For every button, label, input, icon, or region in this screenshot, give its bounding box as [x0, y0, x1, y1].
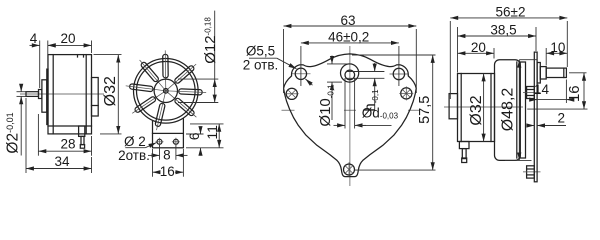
dim 6: [186, 133, 204, 135]
dim O10 (vertical, left of boss): [327, 63, 351, 65]
output collar: [537, 63, 540, 84]
svg-text:28: 28: [60, 137, 75, 152]
motor body: [48, 55, 92, 134]
mounting base right leg: [182, 119, 184, 133]
shaft tip seam: [563, 68, 565, 77]
svg-text:11: 11: [204, 125, 220, 140]
vent slots (8 stamped slots): [129, 54, 202, 126]
shaft hub: [39, 90, 42, 99]
dim 20: [91, 41, 93, 54]
mounting base plate: [153, 133, 184, 147]
dim 4: [39, 41, 41, 89]
mounting plate: [534, 52, 537, 182]
mounting base left leg: [152, 121, 154, 133]
terminal pin: [462, 149, 466, 159]
dim O32 (inside body): [483, 74, 485, 142]
dim 11: [190, 123, 224, 125]
svg-text:Ø48,2: Ø48,2: [500, 88, 517, 132]
flange horizontal centerline ticks: [282, 109, 295, 111]
terminal pin tip: [462, 158, 467, 163]
front plate: [47, 69, 48, 124]
output bushing: [540, 67, 546, 79]
mounting hole right O5.5: [393, 68, 404, 79]
rear boss seam: [92, 105, 99, 107]
end bell outer circle: [134, 59, 199, 124]
dim 10: [545, 48, 547, 66]
bottom rivet: [344, 164, 355, 175]
svg-text:Ø5,5: Ø5,5: [246, 44, 275, 59]
flange vertical centerline: [349, 46, 351, 186]
svg-text:57,5: 57,5: [417, 96, 433, 124]
body bottom inner line: [48, 125, 92, 127]
flange outline: [284, 54, 417, 177]
body seam right: [490, 74, 492, 142]
motor body: [458, 74, 495, 142]
gearbox face seam: [516, 62, 518, 158]
output shaft: [546, 68, 566, 77]
dim 57,5: [352, 54, 436, 56]
svg-text:46±0,2: 46±0,2: [328, 29, 369, 44]
svg-text:14: 14: [534, 82, 550, 97]
dim 28: [37, 114, 39, 156]
dim O32 body: [94, 54, 122, 56]
dim 16: [152, 149, 154, 177]
rear boss: [92, 78, 99, 117]
dim 46 +-0,2: [300, 46, 302, 86]
dim 38,5: [457, 27, 459, 73]
gearbox cover: [520, 62, 525, 158]
svg-text:38,5: 38,5: [490, 23, 516, 38]
central boss O10: [341, 64, 359, 82]
slot axis centerlines: [126, 86, 166, 91]
dim O2 shaft: [17, 91, 27, 93]
svg-text:16: 16: [160, 164, 175, 179]
dim h (across flats): [374, 63, 376, 72]
hub circle: [154, 79, 177, 102]
centerline: [444, 106, 523, 108]
dim 20: [493, 48, 495, 59]
top rivet: [527, 87, 535, 99]
svg-text:8: 8: [163, 148, 171, 163]
svg-text:20: 20: [60, 31, 75, 46]
front bracket: [42, 80, 47, 112]
bottom rivet: [527, 166, 535, 178]
terminal pin: [81, 136, 84, 144]
svg-text:Ø32: Ø32: [468, 95, 485, 125]
16 dim reference line on centerline: [527, 108, 587, 110]
dim 16 (shaft offset): [569, 72, 587, 74]
dim Od (shaft hole): [344, 78, 346, 129]
rear bearing boss: [449, 94, 457, 119]
dim 8: [159, 145, 161, 160]
upper holes centerline left: [292, 73, 311, 75]
rivet right: [401, 88, 412, 99]
svg-text:4: 4: [30, 31, 38, 46]
end bell inner rim circle: [137, 62, 196, 121]
body top seam notch: [77, 55, 79, 57]
dim 34: [25, 98, 27, 173]
base hole left: [157, 139, 162, 144]
body seam left: [52, 55, 54, 134]
svg-text:2 отв.: 2 отв.: [243, 58, 279, 73]
svg-text:6: 6: [186, 132, 202, 140]
terminal pin tip: [80, 145, 84, 149]
upper holes centerline right: [390, 73, 409, 75]
body seam left: [460, 74, 462, 142]
dim 14: [565, 80, 567, 104]
rivet left: [286, 88, 297, 99]
dim 63: [283, 29, 285, 93]
svg-text:2отв.: 2отв.: [118, 148, 150, 163]
mounting hole left O5.5: [295, 68, 306, 79]
svg-text:2: 2: [558, 110, 566, 125]
terminal block: [79, 126, 85, 136]
svg-text:34: 34: [54, 154, 70, 169]
base hole right: [173, 139, 178, 144]
svg-text:20: 20: [471, 40, 486, 55]
flat chords extended (h references): [346, 71, 384, 73]
body seam right: [85, 55, 87, 134]
dim 56+-2: [449, 21, 451, 99]
dim 2 (plate thickness): [528, 125, 535, 127]
centerline: [20, 93, 104, 95]
terminal block: [459, 142, 469, 149]
svg-text:Ø32: Ø32: [102, 76, 119, 106]
svg-text:63: 63: [340, 13, 355, 28]
dim O12 hub: [178, 78, 218, 80]
shaft center circle: [164, 89, 169, 94]
svg-text:56±2: 56±2: [496, 4, 526, 19]
dim O48,2: [519, 59, 537, 61]
gearbox housing: [495, 60, 521, 161]
shaft: [26, 92, 39, 97]
shaft hole Od with flats: [345, 70, 355, 80]
svg-text:10: 10: [550, 40, 565, 55]
